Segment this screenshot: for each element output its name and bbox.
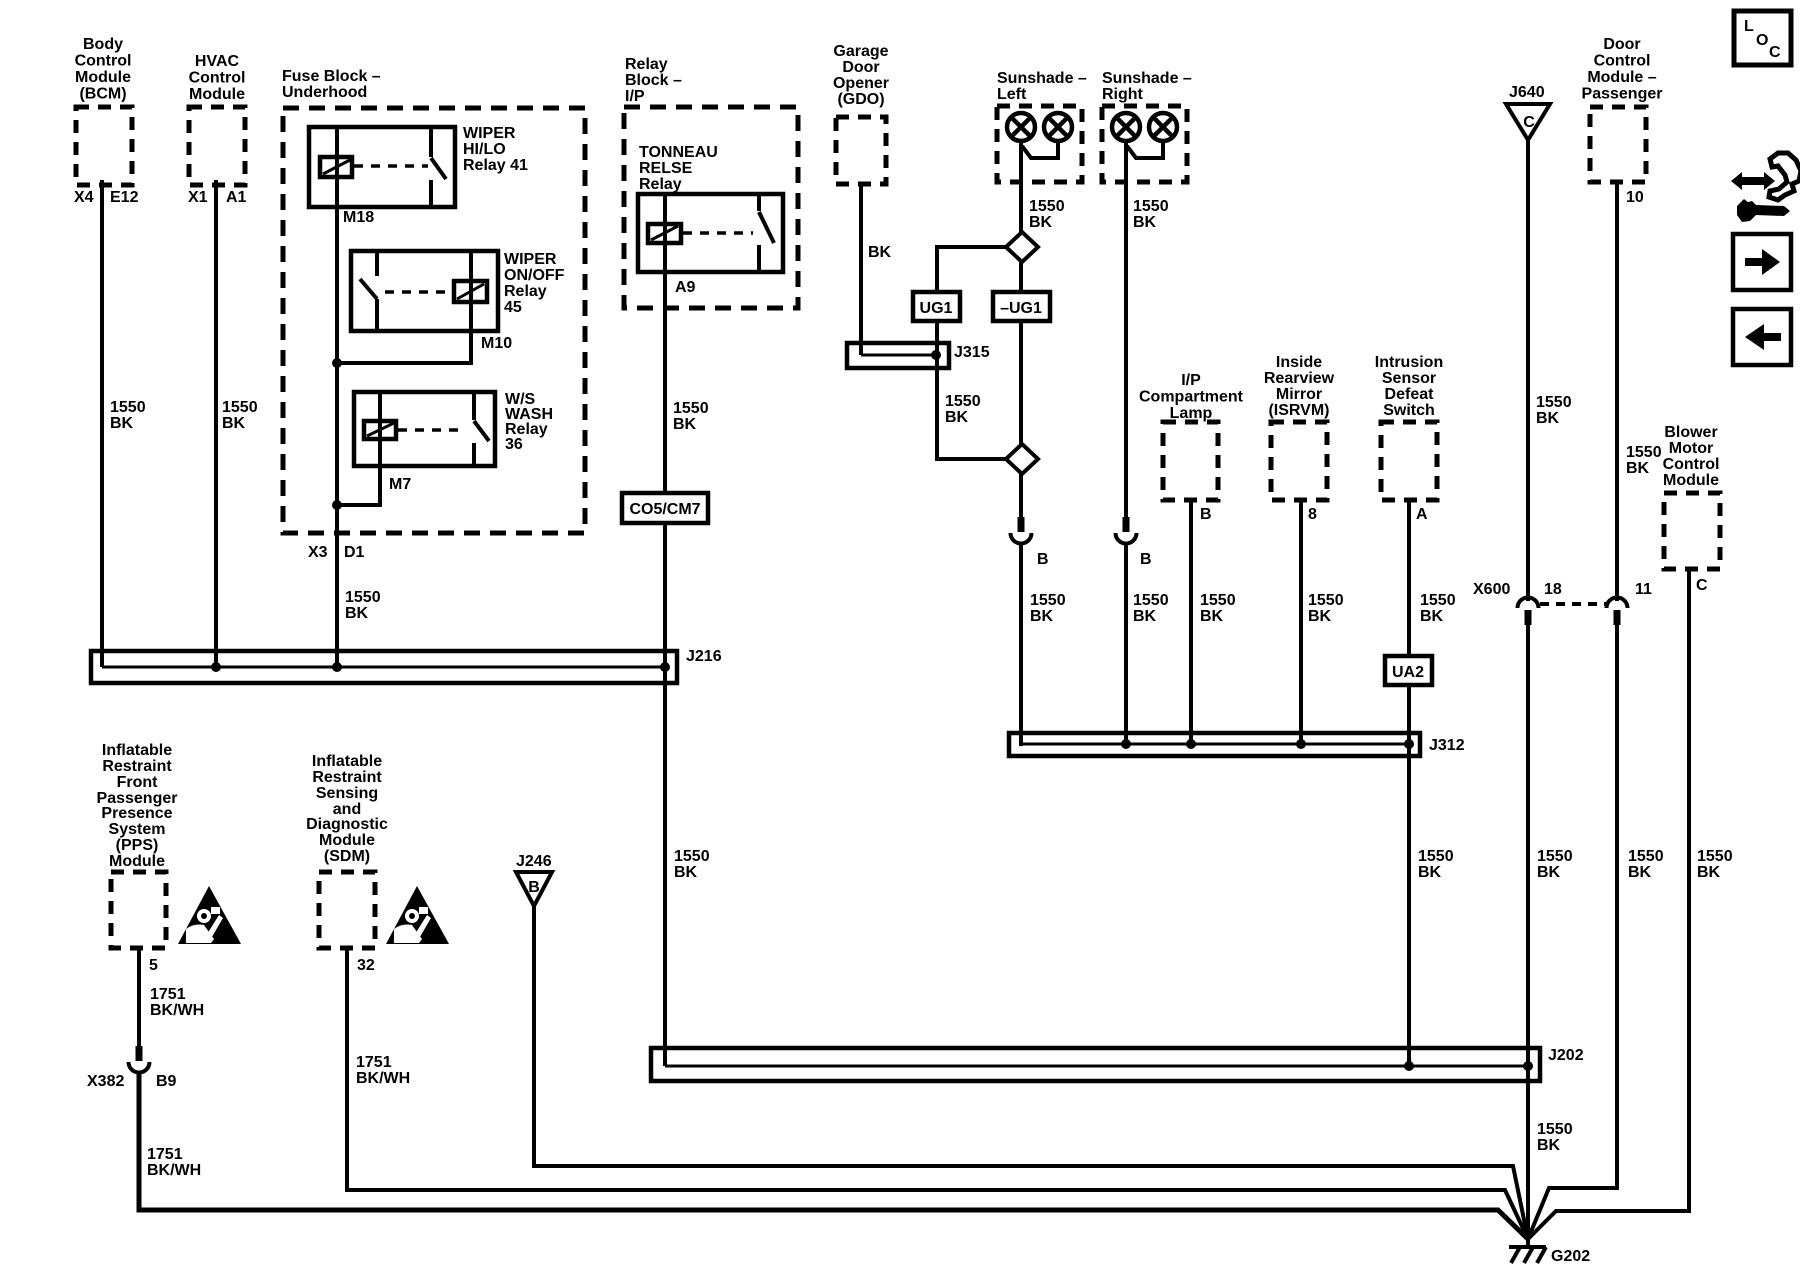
svg-text:(PPS): (PPS)	[116, 837, 159, 854]
svg-text:X1: X1	[188, 189, 208, 206]
junction M10/M18	[332, 358, 342, 368]
Garage Door Opener (GDO) label	[833, 43, 889, 108]
junction sunshade right at J312	[1121, 739, 1131, 749]
svg-text:–UG1: –UG1	[1000, 300, 1042, 317]
svg-text:Intrusion: Intrusion	[1375, 354, 1443, 371]
svg-text:L: L	[1744, 18, 1754, 35]
svg-text:1550: 1550	[1029, 198, 1065, 215]
wire UG1 through J315 to diamond lower	[937, 321, 1006, 459]
back navigation arrow box	[1733, 309, 1791, 365]
svg-text:1751: 1751	[147, 1146, 183, 1163]
relay W/S WASH Relay 36 box	[354, 392, 495, 466]
svg-text:Compartment: Compartment	[1139, 389, 1244, 406]
Body Control Module (BCM) connector box	[76, 107, 132, 185]
splice pack J315	[847, 343, 949, 368]
svg-text:X600: X600	[1473, 581, 1510, 598]
wire J246 to G202	[534, 906, 1528, 1239]
Fuse Block - Underhood dashed box	[283, 108, 585, 533]
junction A9 wire at J216	[660, 662, 670, 672]
wire SDM pin 32 to G202	[347, 948, 1528, 1239]
HVAC Control Module label	[189, 53, 246, 103]
svg-text:1550: 1550	[1626, 444, 1662, 461]
relay 36 actuation dashed link	[398, 428, 466, 432]
connector triangle J640	[1506, 104, 1550, 140]
svg-text:WIPER: WIPER	[463, 125, 516, 142]
svg-text:B: B	[1140, 551, 1152, 568]
svg-text:1550: 1550	[1308, 592, 1344, 609]
relay 36 coil support wire	[378, 392, 382, 466]
svg-text:Control: Control	[1594, 53, 1651, 70]
svg-text:J202: J202	[1548, 1047, 1584, 1064]
svg-text:G202: G202	[1551, 1248, 1590, 1265]
relay 41 coil	[320, 157, 352, 177]
svg-text:Body: Body	[83, 36, 123, 53]
relay WIPER ON/OFF Relay 45 box	[351, 251, 498, 331]
svg-text:8: 8	[1308, 506, 1317, 523]
svg-text:(GDO): (GDO)	[837, 91, 884, 108]
svg-text:B: B	[1200, 506, 1212, 523]
svg-text:Diagnostic: Diagnostic	[306, 816, 388, 833]
svg-text:11: 11	[1635, 581, 1652, 598]
svg-text:Inflatable: Inflatable	[102, 742, 172, 759]
splice pack J202	[651, 1048, 1540, 1081]
relay 41 coil support wire	[335, 127, 339, 207]
svg-text:Inside: Inside	[1276, 354, 1322, 371]
svg-text:Module: Module	[189, 86, 245, 103]
svg-text:BK: BK	[1200, 608, 1224, 625]
wire ISRVM to J312	[1299, 500, 1303, 744]
svg-text:System: System	[109, 821, 166, 838]
in-line connector X382 pin B9	[129, 1046, 150, 1073]
svg-text:Switch: Switch	[1383, 402, 1435, 419]
svg-text:Module: Module	[109, 853, 165, 870]
svg-text:J216: J216	[686, 648, 722, 665]
svg-text:Block –: Block –	[625, 72, 682, 89]
svg-text:Restraint: Restraint	[312, 769, 382, 786]
svg-text:Sunshade –: Sunshade –	[1102, 70, 1192, 87]
svg-text:X4: X4	[74, 189, 94, 206]
svg-text:BK: BK	[1029, 214, 1053, 231]
connector diamond upper	[1006, 232, 1038, 262]
svg-text:1550: 1550	[1133, 592, 1169, 609]
Intrusion Sensor Defeat Switch label	[1375, 354, 1443, 419]
HVAC Control Module connector box	[189, 107, 245, 185]
svg-text:BK: BK	[1420, 608, 1444, 625]
tonneau relay coil	[648, 224, 681, 243]
svg-text:(ISRVM): (ISRVM)	[1268, 402, 1329, 419]
wire GDO to J315	[859, 184, 863, 355]
svg-text:45: 45	[504, 299, 522, 316]
Door Control Module dashed box	[1590, 107, 1646, 182]
svg-text:BK: BK	[1418, 864, 1442, 881]
splice pack J312	[1009, 733, 1420, 756]
svg-text:C: C	[1696, 577, 1708, 594]
relay 45 coil support wire	[469, 251, 473, 331]
svg-text:CO5/CM7: CO5/CM7	[629, 501, 700, 518]
svg-text:Door: Door	[1603, 36, 1640, 53]
wire A9 down through CO5/CM7	[663, 272, 667, 493]
junction I/P lamp at J312	[1186, 739, 1196, 749]
harness navigation icon	[1731, 153, 1800, 222]
Inflatable Restraint Front Passenger Presence System (PPS) Module label	[97, 742, 178, 870]
wire sunshade right lamp 2 jumper	[1127, 141, 1163, 158]
svg-text:Relay: Relay	[504, 283, 547, 300]
svg-text:Relay: Relay	[639, 176, 682, 193]
junction M7/M18	[332, 500, 342, 510]
wire BCM E12 to J216	[100, 180, 104, 667]
in-line connector B (sunshade right)	[1116, 517, 1137, 544]
svg-text:I/P: I/P	[625, 88, 645, 105]
connector triangle J246	[516, 872, 552, 906]
svg-text:X3: X3	[308, 544, 328, 561]
Sunshade - Left dashed box	[997, 106, 1082, 182]
fuse CO5/CM7 box	[622, 493, 708, 523]
relay 45 actuation dashed link	[385, 290, 452, 294]
svg-text:Right: Right	[1102, 86, 1144, 103]
junction fuse block at J216	[332, 662, 342, 672]
Inflatable Restraint Sensing and Diagnostic Module (SDM) label	[306, 753, 388, 865]
junction ISRVM at J312	[1296, 739, 1306, 749]
svg-text:J246: J246	[516, 853, 552, 870]
wire door module to X600	[1615, 180, 1619, 601]
forward navigation arrow box	[1733, 234, 1791, 290]
svg-text:Blower: Blower	[1664, 424, 1717, 441]
svg-text:Fuse Block –: Fuse Block –	[282, 68, 381, 85]
relay 36 switch	[474, 392, 489, 466]
wire PPS pin 5 to X382	[137, 948, 141, 1049]
svg-text:1751: 1751	[150, 986, 186, 1003]
svg-text:BK/WH: BK/WH	[150, 1002, 204, 1019]
svg-text:1550: 1550	[1537, 1121, 1573, 1138]
Body Control Module (BCM) label	[75, 36, 132, 103]
svg-text:1550: 1550	[110, 399, 146, 416]
wire blower module to G202	[1528, 569, 1689, 1239]
svg-text:10: 10	[1626, 189, 1644, 206]
wire X382 to G202	[139, 1073, 1528, 1239]
svg-text:BK: BK	[1537, 864, 1561, 881]
X600 dashed connector link	[1540, 602, 1606, 606]
connector diamond lower	[1006, 444, 1038, 474]
svg-text:D1: D1	[344, 544, 365, 561]
fuse UA2 box	[1385, 656, 1432, 685]
wire M18 down to J216	[335, 207, 339, 667]
svg-text:Module –: Module –	[1587, 69, 1656, 86]
svg-text:1550: 1550	[1536, 394, 1572, 411]
svg-text:1550: 1550	[222, 399, 258, 416]
svg-text:36: 36	[505, 436, 523, 453]
svg-text:BK/WH: BK/WH	[147, 1162, 201, 1179]
svg-text:1751: 1751	[356, 1054, 392, 1071]
svg-text:1550: 1550	[1420, 592, 1456, 609]
I/P Compartment Lamp dashed box	[1163, 422, 1218, 500]
tonneau relay switch	[759, 194, 774, 272]
wire -UG1 to diamond lower	[1019, 321, 1023, 445]
svg-text:Rearview: Rearview	[1264, 370, 1335, 387]
wire X600-18 through J202 to G202	[1526, 625, 1530, 1239]
LOC reference box	[1734, 11, 1791, 65]
ground G202	[1509, 1236, 1546, 1263]
svg-text:UG1: UG1	[920, 300, 953, 317]
svg-text:1550: 1550	[1537, 848, 1573, 865]
svg-text:A9: A9	[675, 279, 696, 296]
svg-text:M7: M7	[389, 476, 411, 493]
svg-text:(BCM): (BCM)	[79, 86, 126, 103]
wire J640 to X600	[1526, 140, 1530, 601]
fuse UG1 box	[913, 292, 960, 321]
I/P Compartment Lamp label	[1139, 372, 1244, 422]
svg-text:1550: 1550	[1628, 848, 1664, 865]
svg-text:Sunshade –: Sunshade –	[997, 70, 1087, 87]
svg-text:Control: Control	[1663, 456, 1720, 473]
svg-text:BK: BK	[1133, 608, 1157, 625]
svg-text:Passenger: Passenger	[1582, 86, 1663, 103]
wire diamond upper to -UG1	[1019, 262, 1023, 292]
svg-text:BK: BK	[1536, 410, 1560, 427]
wire CO5/CM7 to J216 to J202	[663, 523, 667, 1066]
in-line connector X600 pin 11	[1607, 598, 1628, 626]
svg-text:UA2: UA2	[1392, 664, 1424, 681]
junction X600-18 wire at J202	[1523, 1061, 1533, 1071]
svg-text:J640: J640	[1509, 84, 1545, 101]
svg-text:B: B	[528, 879, 540, 896]
wire diamond to UG1	[937, 247, 1006, 292]
svg-text:BK: BK	[222, 415, 246, 432]
svg-text:Underhood: Underhood	[282, 84, 367, 101]
SRS warning triangle (SDM)	[386, 886, 449, 944]
relay WIPER HI/LO Relay 41 box	[309, 127, 455, 207]
svg-text:Front: Front	[117, 774, 159, 791]
svg-text:ON/OFF: ON/OFF	[504, 267, 565, 284]
wire M10 to M18 wire	[337, 331, 471, 363]
splice pack J216	[91, 651, 677, 683]
svg-text:A: A	[1416, 506, 1428, 523]
svg-text:RELSE: RELSE	[639, 160, 693, 177]
wire UA2 through J312 to J202	[1407, 685, 1411, 1066]
svg-text:E12: E12	[110, 189, 139, 206]
svg-text:Inflatable: Inflatable	[312, 753, 382, 770]
svg-text:BK: BK	[1697, 864, 1721, 881]
fuse -UG1 box	[993, 292, 1050, 321]
wire I/P lamp to J312	[1189, 500, 1193, 744]
PPS Module dashed box	[111, 872, 166, 948]
tonneau relay actuation dashed link	[683, 231, 753, 235]
wire sunshade left down	[1019, 141, 1023, 233]
svg-text:(SDM): (SDM)	[324, 848, 370, 865]
svg-text:BK: BK	[110, 415, 134, 432]
SRS warning triangle (PPS)	[178, 886, 241, 944]
relay 41 actuation dashed link	[354, 164, 428, 168]
svg-text:Garage: Garage	[833, 43, 888, 60]
tonneau relay coil support wire	[663, 194, 667, 272]
svg-text:Presence: Presence	[101, 805, 172, 822]
svg-text:1550: 1550	[1697, 848, 1733, 865]
junction HVAC at J216	[211, 662, 221, 672]
svg-text:Control: Control	[75, 53, 132, 70]
svg-text:1550: 1550	[345, 589, 381, 606]
ISRVM dashed box	[1271, 422, 1327, 500]
wire diamond lower to connector B	[1019, 474, 1023, 521]
wire connector B to J312	[1019, 544, 1023, 746]
svg-text:Defeat: Defeat	[1385, 386, 1435, 403]
in-line connector B (sunshade left)	[1011, 517, 1032, 544]
svg-text:32: 32	[357, 957, 375, 974]
svg-text:BK: BK	[1626, 460, 1650, 477]
wire HVAC A1 to J216	[214, 180, 218, 667]
SDM dashed box	[319, 872, 375, 948]
svg-text:Module: Module	[319, 832, 375, 849]
Garage Door Opener connector box	[836, 117, 886, 184]
svg-text:M10: M10	[481, 335, 512, 352]
svg-text:1550: 1550	[945, 393, 981, 410]
svg-text:1550: 1550	[674, 848, 710, 865]
junction UG1 wire at J315	[931, 350, 941, 360]
svg-text:Door: Door	[842, 59, 879, 76]
svg-text:Module: Module	[1663, 472, 1719, 489]
svg-text:BK: BK	[673, 416, 697, 433]
svg-text:HI/LO: HI/LO	[463, 141, 506, 158]
relay 45 switch	[360, 251, 377, 331]
svg-text:1550: 1550	[1200, 592, 1236, 609]
svg-text:HVAC: HVAC	[195, 53, 240, 70]
wire X600-11 to G202	[1528, 625, 1617, 1239]
svg-text:BK: BK	[1030, 608, 1054, 625]
svg-text:BK: BK	[868, 244, 892, 261]
svg-text:BK: BK	[1628, 864, 1652, 881]
svg-text:1550: 1550	[1133, 198, 1169, 215]
wire connector B right to J312	[1124, 544, 1128, 744]
svg-text:B9: B9	[156, 1073, 177, 1090]
svg-text:Sensor: Sensor	[1382, 370, 1436, 387]
svg-text:Control: Control	[189, 70, 246, 87]
Inside Rearview Mirror (ISRVM) label	[1264, 354, 1335, 419]
Blower Motor Control Module dashed box	[1664, 493, 1720, 569]
svg-text:5: 5	[149, 957, 158, 974]
svg-text:BK: BK	[1308, 608, 1332, 625]
svg-text:BK/WH: BK/WH	[356, 1070, 410, 1087]
wire intrusion switch to UA2	[1407, 500, 1411, 656]
junction UA2 wire at J312	[1404, 739, 1414, 749]
svg-text:1550: 1550	[1418, 848, 1454, 865]
sunshade right lamp 1	[1112, 113, 1140, 141]
svg-text:Restraint: Restraint	[102, 758, 172, 775]
svg-text:Mirror: Mirror	[1276, 386, 1322, 403]
svg-text:A1: A1	[226, 189, 247, 206]
Sunshade - Right dashed box	[1102, 106, 1187, 182]
junction UA2 wire at J202	[1404, 1061, 1414, 1071]
svg-text:J312: J312	[1429, 737, 1465, 754]
svg-text:Motor: Motor	[1669, 440, 1713, 457]
sunshade left lamp 1	[1007, 113, 1035, 141]
svg-text:Module: Module	[75, 69, 131, 86]
svg-text:Opener: Opener	[833, 75, 889, 92]
svg-text:TONNEAU: TONNEAU	[639, 144, 718, 161]
wire M7 to M18 wire	[337, 466, 380, 505]
svg-text:C: C	[1769, 44, 1781, 61]
svg-text:Sensing: Sensing	[316, 785, 378, 802]
Relay Block - I/P dashed box	[624, 107, 798, 308]
svg-text:BK: BK	[674, 864, 698, 881]
relay 45 coil	[454, 281, 487, 302]
relay 41 switch	[431, 127, 446, 207]
svg-text:M18: M18	[343, 209, 374, 226]
Blower Motor Control Module label	[1663, 424, 1720, 489]
svg-text:Left: Left	[997, 86, 1027, 103]
svg-text:J315: J315	[954, 344, 990, 361]
svg-text:B: B	[1037, 551, 1049, 568]
Door Control Module - Passenger label	[1582, 36, 1663, 103]
in-line connector X600 pin 18	[1518, 598, 1539, 626]
wire sunshade right down	[1124, 141, 1128, 521]
svg-text:Lamp: Lamp	[1170, 405, 1213, 422]
svg-text:X382: X382	[87, 1073, 124, 1090]
svg-text:Relay 41: Relay 41	[463, 157, 528, 174]
svg-text:C: C	[1523, 114, 1535, 131]
svg-text:WIPER: WIPER	[504, 251, 557, 268]
svg-text:BK: BK	[945, 409, 969, 426]
svg-text:I/P: I/P	[1181, 372, 1201, 389]
svg-text:1550: 1550	[1030, 592, 1066, 609]
svg-text:BK: BK	[1537, 1137, 1561, 1154]
sunshade left lamp 2	[1044, 113, 1072, 141]
relay 36 coil	[364, 421, 396, 439]
svg-text:Relay: Relay	[625, 56, 668, 73]
relay TONNEAU RELSE box	[638, 194, 783, 272]
svg-text:O: O	[1756, 32, 1768, 49]
svg-text:18: 18	[1544, 581, 1562, 598]
svg-text:BK: BK	[345, 605, 369, 622]
wire sunshade left lamp 2 jumper	[1022, 141, 1058, 158]
sunshade right lamp 2	[1149, 113, 1177, 141]
Intrusion Sensor Defeat Switch dashed box	[1381, 422, 1437, 500]
svg-text:1550: 1550	[673, 400, 709, 417]
svg-text:BK: BK	[1133, 214, 1157, 231]
